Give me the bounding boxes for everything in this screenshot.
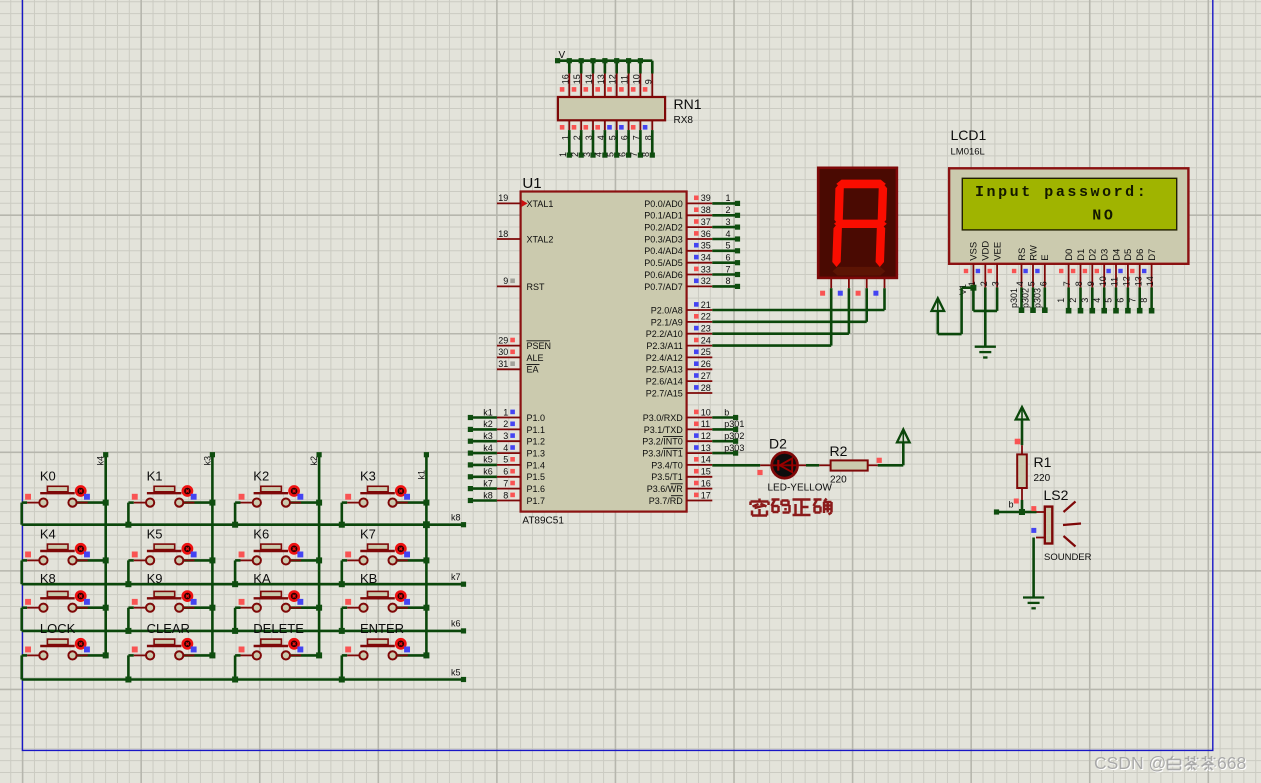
markers K0 bbox=[25, 494, 90, 500]
label LS2 / SOUNDER bbox=[1044, 487, 1092, 563]
svg-text:36: 36 bbox=[701, 229, 711, 239]
svg-text:5: 5 bbox=[606, 152, 616, 157]
svg-text:b: b bbox=[1009, 499, 1014, 509]
svg-text:9: 9 bbox=[503, 276, 508, 286]
svg-text:2: 2 bbox=[570, 152, 580, 157]
svg-text:3: 3 bbox=[1080, 298, 1090, 303]
svg-text:k5: k5 bbox=[483, 455, 493, 465]
markers LOCK bbox=[25, 647, 90, 653]
svg-text:P0.6/AD6: P0.6/AD6 bbox=[644, 270, 683, 280]
svg-text:LS2: LS2 bbox=[1044, 487, 1069, 503]
button K9 bbox=[128, 591, 212, 631]
svg-text:LM016L: LM016L bbox=[951, 146, 985, 157]
svg-text:k8: k8 bbox=[451, 513, 461, 523]
svg-text:6: 6 bbox=[617, 152, 627, 157]
svg-text:14: 14 bbox=[584, 74, 594, 84]
wires k1-k8 at U1 P1 port bbox=[470, 418, 497, 501]
LCD pin state squares bbox=[964, 269, 1147, 273]
markers DELETE bbox=[239, 647, 304, 653]
svg-text:D3: D3 bbox=[1100, 249, 1111, 261]
svg-text:D6: D6 bbox=[1135, 249, 1146, 261]
svg-text:9: 9 bbox=[643, 79, 653, 84]
svg-text:RW: RW bbox=[1028, 245, 1039, 261]
svg-text:P0.7/AD7: P0.7/AD7 bbox=[644, 282, 683, 292]
svg-text:33: 33 bbox=[701, 264, 711, 274]
junctions K9 bbox=[125, 605, 215, 634]
svg-text:4: 4 bbox=[1092, 298, 1102, 303]
origin marker D2 bbox=[757, 470, 762, 475]
power arrow at R2 bbox=[897, 429, 910, 442]
button ENTER bbox=[342, 639, 427, 679]
svg-text:P2.6/A14: P2.6/A14 bbox=[646, 377, 683, 387]
svg-text:P3.1/TXD: P3.1/TXD bbox=[644, 425, 684, 435]
svg-text:k6: k6 bbox=[451, 619, 461, 629]
wire U1 P3.4 to LED D2 bbox=[712, 464, 760, 467]
U1 right pin stubs bbox=[687, 203, 713, 500]
svg-text:P3.4/T0: P3.4/T0 bbox=[651, 460, 683, 470]
svg-text:K8: K8 bbox=[40, 571, 56, 586]
svg-text:8: 8 bbox=[1139, 298, 1149, 303]
svg-text:24: 24 bbox=[701, 335, 711, 345]
svg-text:KA: KA bbox=[253, 571, 271, 586]
U1 right pin names bbox=[642, 199, 683, 506]
markers KA bbox=[239, 599, 304, 605]
svg-text:P2.0/A8: P2.0/A8 bbox=[651, 305, 683, 315]
svg-text:4: 4 bbox=[1015, 281, 1025, 286]
svg-text:P0.0/AD0: P0.0/AD0 bbox=[644, 199, 683, 209]
svg-text:6: 6 bbox=[1116, 298, 1126, 303]
svg-text:D7: D7 bbox=[1147, 249, 1158, 261]
svg-text:D1: D1 bbox=[1076, 249, 1087, 261]
wires LCD RS RW E to nets p301 p302 p303 bbox=[1022, 287, 1045, 310]
svg-text:37: 37 bbox=[701, 217, 711, 227]
power arrow V1 bbox=[932, 298, 945, 311]
svg-text:CLEAR: CLEAR bbox=[147, 621, 190, 636]
wire R1 to node b and LS2 bbox=[997, 500, 1037, 512]
resistor R2 220 bbox=[819, 460, 878, 470]
button KA bbox=[235, 591, 319, 631]
svg-text:4: 4 bbox=[503, 443, 508, 453]
svg-text:K5: K5 bbox=[147, 527, 163, 542]
ground under LCD bbox=[975, 347, 996, 358]
button K4 bbox=[22, 544, 106, 584]
junctions LOCK bbox=[103, 652, 109, 658]
svg-text:6: 6 bbox=[1038, 281, 1048, 286]
net squares and labels p301 p302 p303 at LCD bbox=[1009, 288, 1048, 313]
LCD screen bbox=[962, 178, 1176, 230]
svg-text:P3.5/T1: P3.5/T1 bbox=[651, 472, 683, 482]
junctions KB bbox=[339, 605, 430, 634]
svg-text:K2: K2 bbox=[253, 469, 269, 484]
svg-text:XTAL2: XTAL2 bbox=[527, 234, 554, 244]
svg-text:13: 13 bbox=[1133, 276, 1143, 286]
junctions CLEAR bbox=[125, 652, 215, 682]
svg-text:7: 7 bbox=[629, 152, 639, 157]
svg-text:5: 5 bbox=[1104, 298, 1114, 303]
svg-text:10: 10 bbox=[1098, 276, 1108, 286]
wires RN1 bottom pins to nets 1-8 bbox=[569, 130, 652, 155]
7-segment pin leads bbox=[831, 278, 884, 288]
svg-text:K0: K0 bbox=[40, 469, 56, 484]
svg-text:P1.0: P1.0 bbox=[527, 413, 546, 423]
svg-text:4: 4 bbox=[594, 152, 604, 157]
svg-text:13: 13 bbox=[596, 74, 606, 84]
junctions K2 bbox=[232, 500, 322, 528]
origin marker R2 bbox=[877, 458, 882, 463]
svg-text:31: 31 bbox=[498, 359, 508, 369]
LCD pin numbers 1-14 bbox=[967, 276, 1155, 286]
svg-text:5: 5 bbox=[503, 455, 508, 465]
svg-text:34: 34 bbox=[701, 253, 711, 263]
junctions K6 bbox=[232, 557, 322, 587]
svg-text:P2.4/A12: P2.4/A12 bbox=[646, 353, 683, 363]
LCD pin leads bbox=[973, 264, 1151, 288]
svg-text:12: 12 bbox=[608, 74, 618, 84]
svg-text:2: 2 bbox=[503, 419, 508, 429]
svg-text:26: 26 bbox=[701, 359, 711, 369]
svg-text:CSDN @: CSDN @ bbox=[1094, 753, 1166, 773]
markers CLEAR bbox=[132, 647, 197, 653]
svg-text:D2: D2 bbox=[1088, 249, 1099, 261]
keypad row wires k8 k7 k6 k5 bbox=[22, 525, 464, 680]
net squares and labels 1-8 at P0 bbox=[726, 193, 741, 289]
markers K3 bbox=[345, 494, 410, 500]
svg-text:11: 11 bbox=[620, 75, 630, 84]
U1 left pin names bbox=[527, 199, 554, 506]
button K7 bbox=[342, 544, 427, 584]
svg-text:ENTER: ENTER bbox=[360, 621, 404, 636]
junctions K8 bbox=[103, 605, 109, 611]
markers K7 bbox=[345, 552, 410, 558]
svg-text:25: 25 bbox=[701, 347, 711, 357]
svg-text:27: 27 bbox=[701, 371, 711, 381]
svg-text:2: 2 bbox=[726, 205, 731, 215]
label R2 / 220 bbox=[830, 443, 848, 485]
junctions K3 bbox=[339, 500, 430, 528]
button KB bbox=[342, 591, 427, 631]
svg-text:8: 8 bbox=[503, 490, 508, 500]
button K6 bbox=[235, 544, 319, 584]
svg-text:16: 16 bbox=[560, 74, 570, 84]
svg-text:29: 29 bbox=[498, 335, 508, 345]
svg-text:P3.3/INT1: P3.3/INT1 bbox=[642, 449, 683, 459]
junctions DELETE bbox=[232, 652, 322, 682]
svg-text:11: 11 bbox=[1110, 277, 1120, 286]
svg-text:VSS: VSS bbox=[969, 242, 980, 261]
svg-text:RS: RS bbox=[1017, 248, 1028, 261]
svg-text:1: 1 bbox=[558, 152, 568, 157]
svg-text:P1.5: P1.5 bbox=[527, 472, 546, 482]
svg-text:D5: D5 bbox=[1123, 249, 1134, 261]
svg-text:P3.0/RXD: P3.0/RXD bbox=[643, 413, 684, 423]
svg-text:17: 17 bbox=[701, 490, 711, 500]
resistor network RN1 bbox=[558, 74, 665, 131]
svg-text:6: 6 bbox=[726, 253, 731, 263]
svg-text:P0.4/AD4: P0.4/AD4 bbox=[644, 246, 683, 256]
svg-text:p301: p301 bbox=[1009, 288, 1019, 308]
wire end squares and net labels 1-8 under RN1 bbox=[558, 152, 655, 158]
wires LCD D0-D7 to nets 1-8 bbox=[1069, 287, 1152, 310]
markers K1 bbox=[132, 494, 197, 500]
button K5 bbox=[128, 544, 212, 584]
svg-text:2: 2 bbox=[1068, 298, 1078, 303]
svg-text:4: 4 bbox=[726, 229, 731, 239]
U1 left pin stubs bbox=[497, 203, 521, 500]
svg-text:p303: p303 bbox=[1032, 288, 1042, 308]
keypad column wires k4 k3 k2 k1 bbox=[106, 455, 427, 656]
junctions K7 bbox=[339, 557, 430, 587]
svg-text:V: V bbox=[559, 50, 566, 61]
svg-text:P2.2/A10: P2.2/A10 bbox=[646, 329, 683, 339]
button K1 bbox=[128, 486, 212, 524]
svg-text:3: 3 bbox=[726, 217, 731, 227]
watermark CSDN bbox=[1094, 753, 1247, 774]
svg-text:LCD1: LCD1 bbox=[951, 127, 987, 143]
svg-text:ALE: ALE bbox=[527, 353, 544, 363]
svg-text:LOCK: LOCK bbox=[40, 621, 76, 636]
svg-text:R2: R2 bbox=[830, 443, 848, 459]
svg-text:k2: k2 bbox=[309, 456, 319, 466]
svg-text:P3.2/INT0: P3.2/INT0 bbox=[642, 437, 683, 447]
markers ENTER bbox=[345, 647, 410, 653]
button DELETE bbox=[235, 639, 319, 679]
markers K4 bbox=[25, 552, 90, 558]
svg-text:k5: k5 bbox=[451, 667, 461, 677]
svg-text:P2.1/A9: P2.1/A9 bbox=[651, 317, 683, 327]
power arrow above R1 bbox=[1016, 407, 1029, 445]
svg-text:k1: k1 bbox=[416, 470, 426, 480]
svg-text:12: 12 bbox=[1122, 276, 1132, 286]
svg-text:p303: p303 bbox=[724, 443, 744, 453]
svg-text:P0.5/AD5: P0.5/AD5 bbox=[644, 258, 683, 268]
ground under LS2 bbox=[1023, 598, 1044, 609]
junctions KA bbox=[232, 605, 322, 634]
svg-text:DELETE: DELETE bbox=[253, 621, 304, 636]
svg-text:18: 18 bbox=[498, 229, 508, 239]
svg-text:8: 8 bbox=[641, 152, 651, 157]
LCD LM016L body bbox=[949, 168, 1188, 263]
svg-text:P1.3: P1.3 bbox=[527, 449, 546, 459]
svg-text:7: 7 bbox=[1127, 298, 1137, 303]
svg-text:P2.7/A15: P2.7/A15 bbox=[646, 388, 683, 398]
svg-text:R1: R1 bbox=[1034, 454, 1052, 470]
svg-text:VEE: VEE bbox=[992, 242, 1003, 261]
svg-text:Input password:: Input password: bbox=[975, 184, 1148, 201]
svg-text:8: 8 bbox=[1074, 281, 1084, 286]
svg-text:RST: RST bbox=[527, 282, 546, 292]
junctions K1 bbox=[125, 500, 215, 528]
svg-text:U1: U1 bbox=[522, 175, 541, 192]
svg-text:p302: p302 bbox=[724, 431, 744, 441]
U1 left pin numbers and state squares bbox=[498, 193, 515, 500]
svg-text:RN1: RN1 bbox=[674, 96, 702, 112]
svg-text:PSEN: PSEN bbox=[527, 341, 552, 351]
net squares and labels k1-k8 at U1 bbox=[468, 407, 493, 503]
svg-text:D4: D4 bbox=[1111, 249, 1122, 261]
markers K5 bbox=[132, 552, 197, 558]
svg-text:K4: K4 bbox=[40, 527, 56, 542]
svg-text:k7: k7 bbox=[451, 572, 461, 582]
7-segment digit A segments bbox=[832, 180, 887, 276]
svg-text:P3.6/WR: P3.6/WR bbox=[647, 484, 684, 494]
svg-text:39: 39 bbox=[701, 193, 711, 203]
svg-text:28: 28 bbox=[701, 383, 711, 393]
svg-text:D0: D0 bbox=[1064, 249, 1075, 261]
svg-text:V1: V1 bbox=[958, 284, 968, 295]
svg-text:668: 668 bbox=[1217, 753, 1246, 773]
svg-text:220: 220 bbox=[830, 474, 847, 485]
svg-text:22: 22 bbox=[701, 312, 711, 322]
keypad row wire end squares and net labels k8 k7 k6 k5 bbox=[451, 513, 466, 683]
svg-text:11: 11 bbox=[701, 419, 710, 429]
junction squares on V bus bbox=[555, 58, 643, 63]
svg-text:KB: KB bbox=[360, 571, 377, 586]
svg-text:XTAL1: XTAL1 bbox=[527, 199, 554, 209]
svg-text:K6: K6 bbox=[253, 527, 269, 542]
svg-text:P1.2: P1.2 bbox=[527, 437, 546, 447]
LCD1 label bbox=[951, 127, 987, 157]
svg-text:P1.6: P1.6 bbox=[527, 484, 546, 494]
LCD pin names bbox=[969, 241, 1158, 261]
7-segment pin state squares bbox=[820, 291, 878, 296]
svg-text:1: 1 bbox=[503, 407, 508, 417]
svg-text:8: 8 bbox=[726, 276, 731, 286]
svg-text:K7: K7 bbox=[360, 527, 376, 542]
wire V bus to RN1 top pins bbox=[558, 61, 653, 74]
LCD text Input password: / NO bbox=[975, 184, 1148, 224]
svg-text:7: 7 bbox=[1062, 281, 1072, 286]
svg-text:5: 5 bbox=[1027, 281, 1037, 286]
svg-text:2: 2 bbox=[979, 281, 989, 286]
svg-text:14: 14 bbox=[1145, 276, 1155, 286]
wires P3.0-P3.3 to nets b p301 p302 p303 bbox=[712, 418, 735, 454]
svg-text:LED-YELLOW: LED-YELLOW bbox=[768, 483, 833, 494]
junctions ENTER bbox=[339, 652, 430, 682]
svg-text:D2: D2 bbox=[769, 435, 787, 451]
svg-text:P1.4: P1.4 bbox=[527, 460, 546, 470]
svg-text:k3: k3 bbox=[202, 456, 212, 466]
svg-text:P1.1: P1.1 bbox=[527, 425, 546, 435]
svg-text:k8: k8 bbox=[483, 490, 493, 500]
svg-text:21: 21 bbox=[701, 300, 711, 310]
svg-text:1: 1 bbox=[1056, 298, 1066, 303]
keypad column top squares and labels bbox=[96, 452, 429, 479]
svg-text:14: 14 bbox=[701, 455, 711, 465]
svg-text:3: 3 bbox=[991, 281, 1001, 286]
svg-text:35: 35 bbox=[701, 241, 711, 251]
markers K9 bbox=[132, 599, 197, 605]
markers KB bbox=[345, 599, 410, 605]
svg-text:P0.1/AD1: P0.1/AD1 bbox=[644, 211, 683, 221]
svg-text:P2.5/A13: P2.5/A13 bbox=[646, 365, 683, 375]
svg-text:NO: NO bbox=[1092, 208, 1115, 225]
button K2 bbox=[235, 486, 319, 524]
U1 right pin numbers and state squares bbox=[694, 193, 711, 500]
svg-text:P0.2/AD2: P0.2/AD2 bbox=[644, 223, 683, 233]
junction at LCD pin 1 bbox=[970, 285, 976, 291]
wire R2 to power bbox=[878, 442, 904, 465]
svg-text:3: 3 bbox=[503, 431, 508, 441]
svg-text:k1: k1 bbox=[483, 407, 493, 417]
junction node b bbox=[994, 509, 1025, 515]
svg-text:k7: k7 bbox=[483, 478, 493, 488]
svg-text:13: 13 bbox=[701, 443, 711, 453]
junctions K0 bbox=[103, 500, 109, 506]
svg-text:5: 5 bbox=[726, 241, 731, 251]
svg-text:K3: K3 bbox=[360, 469, 376, 484]
button K0 bbox=[22, 486, 106, 524]
svg-text:30: 30 bbox=[498, 347, 508, 357]
svg-text:p302: p302 bbox=[1021, 288, 1031, 308]
RN1 pin numbers bbox=[560, 74, 653, 140]
wire LED to R2 bbox=[806, 464, 819, 467]
svg-text:k3: k3 bbox=[483, 431, 493, 441]
label D2 / LED-YELLOW bbox=[768, 435, 833, 493]
junctions K4 bbox=[103, 557, 109, 563]
7-segment display bbox=[818, 168, 897, 278]
svg-text:6: 6 bbox=[503, 467, 508, 477]
svg-text:P0.3/AD3: P0.3/AD3 bbox=[644, 234, 683, 244]
svg-text:E: E bbox=[1040, 254, 1051, 260]
button K8 bbox=[22, 591, 106, 631]
svg-text:k4: k4 bbox=[483, 443, 493, 453]
net squares and labels b p301 p302 p303 bbox=[724, 407, 744, 455]
svg-text:7: 7 bbox=[726, 264, 731, 274]
svg-text:VDD: VDD bbox=[981, 241, 992, 261]
op-amp U1 AT89C51 body bbox=[521, 175, 687, 527]
svg-text:38: 38 bbox=[701, 205, 711, 215]
text 密码正确 (password correct) bbox=[751, 499, 832, 516]
XTAL1 clock marker bbox=[522, 200, 528, 207]
svg-text:1: 1 bbox=[726, 193, 731, 203]
markers K6 bbox=[239, 552, 304, 558]
svg-text:b: b bbox=[724, 407, 729, 417]
RN1 pin state squares bbox=[560, 87, 648, 130]
svg-text:220: 220 bbox=[1034, 473, 1051, 484]
svg-text:7: 7 bbox=[503, 478, 508, 488]
origin markers at LS2 bbox=[1014, 499, 1037, 533]
svg-text:15: 15 bbox=[701, 467, 711, 477]
svg-text:3: 3 bbox=[582, 152, 592, 157]
origin marker R1 bbox=[1015, 439, 1021, 445]
svg-text:P3.7/RD: P3.7/RD bbox=[649, 496, 684, 506]
svg-text:16: 16 bbox=[701, 478, 711, 488]
markers K8 bbox=[25, 599, 90, 605]
junction k1 column at k8 row bbox=[423, 521, 430, 528]
resistor R1 220 bbox=[1017, 445, 1027, 500]
wire LS2 to ground bbox=[1032, 538, 1035, 598]
svg-text:19: 19 bbox=[498, 193, 508, 203]
button LOCK bbox=[22, 639, 106, 679]
svg-text:p301: p301 bbox=[724, 419, 744, 429]
svg-text:P2.3/A11: P2.3/A11 bbox=[646, 341, 682, 351]
svg-text:12: 12 bbox=[701, 431, 711, 441]
svg-text:RX8: RX8 bbox=[674, 115, 694, 126]
LED D2 bbox=[760, 452, 806, 478]
wire LCD VSS to power V1 bbox=[938, 288, 974, 334]
wires LCD VDD VEE to ground bbox=[973, 287, 997, 346]
svg-text:10: 10 bbox=[701, 407, 711, 417]
svg-text:15: 15 bbox=[572, 74, 582, 84]
svg-text:10: 10 bbox=[631, 74, 641, 84]
svg-text:P1.7: P1.7 bbox=[527, 496, 546, 506]
junctions K5 bbox=[125, 557, 215, 587]
svg-text:k2: k2 bbox=[483, 419, 493, 429]
svg-text:K9: K9 bbox=[147, 571, 163, 586]
markers K2 bbox=[239, 494, 304, 500]
svg-text:32: 32 bbox=[701, 276, 711, 286]
sounder LS2 bbox=[1036, 502, 1081, 547]
